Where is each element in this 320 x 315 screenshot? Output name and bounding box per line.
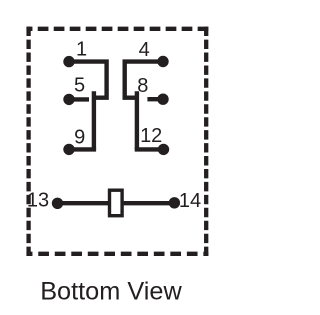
svg-text:14: 14 [179, 190, 201, 212]
pin 8 terminal dot [157, 94, 168, 105]
svg-text:1: 1 [76, 39, 87, 61]
pin 9 terminal dot [63, 144, 74, 155]
pin 13 terminal dot [52, 198, 63, 209]
wire: pin 9 lead [69, 147, 96, 151]
relay case outline: right dashed edge [204, 27, 208, 256]
wire: pin 8 stub (open contact) [147, 97, 163, 101]
svg-text:4: 4 [139, 39, 150, 61]
wire: right common vertical (to pin 12) [135, 91, 139, 149]
wire: pin 1 armature (right, down, left jog) [69, 62, 107, 98]
wire: pin 5 stub (open contact) [69, 97, 89, 101]
svg-text:13: 13 [27, 190, 49, 212]
pin 14 terminal dot [169, 197, 180, 208]
svg-text:8: 8 [137, 75, 148, 97]
relay case outline: bottom dashed edge [26, 252, 208, 256]
svg-text:Bottom View: Bottom View [40, 277, 182, 305]
relay case outline: top dashed edge [26, 27, 208, 31]
wire: pin 4 armature (left, down, right jog) [125, 62, 163, 98]
pin 4 terminal dot [157, 56, 168, 67]
pin 5 terminal dot [63, 94, 74, 105]
wire: coil lead pin 13 to pin 14 [58, 201, 175, 205]
svg-text:9: 9 [74, 127, 85, 149]
svg-text:5: 5 [74, 75, 85, 97]
pin 12 terminal dot [158, 144, 169, 155]
pin 1 terminal dot [63, 56, 74, 67]
wire: pin 12 lead [135, 147, 164, 151]
svg-text:12: 12 [140, 125, 162, 147]
wire: left common vertical (to pin 9) [92, 91, 96, 149]
relay case outline: left dashed edge [26, 27, 30, 256]
coil K1 (rectangle symbol) [110, 190, 123, 216]
